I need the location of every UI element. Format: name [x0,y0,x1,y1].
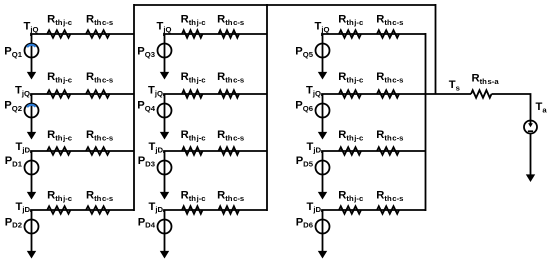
resistor Rth c-s (Q6 branch) [376,71,403,98]
wire bus C (right column collector) [425,33,427,211]
resistor Rth j-c (D4 branch) [181,190,207,214]
svg-text:Rth j-c: Rth j-c [47,14,73,27]
resistor Rth j-c (Q2 branch) [47,71,73,98]
wire D4 branch row [164,210,267,212]
resistor Rth j-c (D1 branch) [47,129,73,155]
resistor Rth j-c (D3 branch) [181,129,207,155]
resistor Rth c-s (Q5 branch) [376,14,403,38]
svg-text:TjQ: TjQ [315,21,330,34]
current source PD4 [138,210,172,259]
svg-text:TjD: TjD [306,141,321,154]
resistor Rth j-c (Q1 branch) [47,14,73,38]
resistor Rth j-c (D5 branch) [338,129,364,155]
resistor Rth c-s (Q1 branch) [86,14,113,38]
svg-text:Rth j-c: Rth j-c [47,71,73,84]
svg-text:Rth j-c: Rth j-c [338,129,364,142]
wire drop from top bus to node Ts [435,4,437,94]
current source PQ6 [295,94,329,140]
wire D5 branch row [322,151,426,153]
wire D1 branch row [31,151,134,153]
wire Q3 branch row [164,34,267,36]
svg-text:Rth s-a: Rth s-a [472,73,500,86]
svg-text:PD3: PD3 [138,155,155,168]
wire PQ6 branch row to node Ts [322,94,471,96]
current source PD2 [5,210,39,259]
resistor Rth j-c (D2 branch) [47,190,73,214]
svg-text:TjD: TjD [15,141,30,154]
svg-text:PQ1: PQ1 [4,46,22,59]
resistor Rth c-s (D3 branch) [217,129,244,155]
svg-text:Rth c-s: Rth c-s [217,71,244,84]
wire D2 branch row [31,210,134,212]
current source PD6 [296,210,330,259]
wire D6 branch row [322,210,426,212]
svg-text:TjQ: TjQ [15,85,30,98]
svg-text:Rth c-s: Rth c-s [86,190,113,203]
current source PQ4 [137,94,171,140]
svg-text:Rth c-s: Rth c-s [217,129,244,142]
svg-text:PD5: PD5 [296,155,314,168]
svg-text:PD2: PD2 [5,216,22,229]
resistor Rth j-c (D6 branch) [338,190,364,214]
svg-text:PQ5: PQ5 [295,46,313,59]
resistor Rth c-s (Q3 branch) [217,14,244,38]
resistor Rth j-c (Q4 branch) [181,71,207,98]
svg-text:TjD: TjD [148,201,163,214]
wire D3 branch row [164,151,267,153]
ground arrow below Ta [526,134,535,183]
resistor Rth c-s (Q2 branch) [86,71,113,98]
svg-text:Rth j-c: Rth j-c [338,14,364,27]
svg-text:Rth c-s: Rth c-s [376,14,403,27]
resistor Rth c-s (D4 branch) [217,190,244,214]
current source PD5 [296,151,330,200]
svg-text:Rth c-s: Rth c-s [217,14,244,27]
resistor Rth c-s (D5 branch) [376,129,403,155]
svg-text:Rth j-c: Rth j-c [181,71,207,84]
svg-text:TjQ: TjQ [157,21,172,34]
svg-text:TjQ: TjQ [24,21,39,34]
svg-text:TjD: TjD [15,201,30,214]
wire bus A (left column collector) [133,4,135,211]
svg-text:TjQ: TjQ [306,85,321,98]
svg-text:PQ2: PQ2 [4,100,22,113]
voltage source Ta (ambient temperature) [524,121,537,134]
wire from Rth s-a down to Ta source [492,94,531,121]
svg-text:Rth c-s: Rth c-s [86,14,113,27]
svg-text:Rth c-s: Rth c-s [86,71,113,84]
svg-text:PD4: PD4 [138,216,156,229]
wire top bus connecting heatsink branches [134,4,436,6]
resistor Rth j-c (Q6 branch) [338,71,364,98]
resistor Rth c-s (D6 branch) [376,190,403,214]
svg-text:Rth c-s: Rth c-s [217,190,244,203]
svg-text:TjQ: TjQ [148,85,163,98]
svg-text:Rth j-c: Rth j-c [338,71,364,84]
current source PQ2 [4,94,38,140]
resistor Rth c-s (Q4 branch) [217,71,244,98]
svg-text:TjD: TjD [148,141,163,154]
current source PQ3 [137,34,171,80]
wire Q5 branch row [322,34,426,36]
svg-text:TjD: TjD [306,201,321,214]
resistor Rth c-s (D1 branch) [86,129,113,155]
svg-text:Rth j-c: Rth j-c [181,129,207,142]
svg-text:Rth c-s: Rth c-s [376,129,403,142]
svg-text:PD1: PD1 [5,155,23,168]
resistor Rth j-c (Q3 branch) [181,14,207,38]
svg-text:Rth j-c: Rth j-c [181,14,207,27]
current source PQ5 [295,34,329,80]
svg-text:Rth j-c: Rth j-c [47,190,73,203]
resistor Rth s-a [471,73,499,98]
svg-text:Rth j-c: Rth j-c [47,129,73,142]
svg-text:PQ3: PQ3 [137,46,155,59]
svg-text:Ta: Ta [536,101,548,114]
resistor Rth j-c (Q5 branch) [338,14,364,38]
svg-text:Rth c-s: Rth c-s [376,190,403,203]
svg-text:Rth c-s: Rth c-s [86,129,113,142]
svg-text:PQ4: PQ4 [137,100,155,113]
svg-text:PQ6: PQ6 [295,100,313,113]
svg-text:Ts: Ts [449,79,460,92]
wire Q4 branch row [164,94,267,96]
current source PD1 [5,151,39,200]
wire Q2 branch row [31,94,134,96]
svg-text:Rth j-c: Rth j-c [338,190,364,203]
svg-text:PD6: PD6 [296,216,313,229]
current source PQ1 [4,34,38,80]
resistor Rth c-s (D2 branch) [86,190,113,214]
wire bus B (middle column collector) [266,4,268,211]
wire Q1 branch row [31,34,134,36]
current source PD3 [138,151,172,200]
svg-text:Rth c-s: Rth c-s [376,71,403,84]
svg-text:Rth j-c: Rth j-c [181,190,207,203]
